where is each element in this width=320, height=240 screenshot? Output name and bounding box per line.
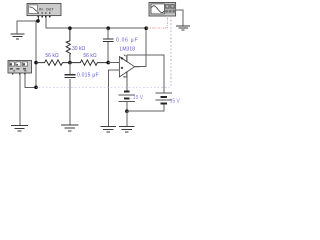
svg-text:56 kΩ: 56 kΩ [45,53,58,59]
junction dot: node C inverting input [106,61,110,65]
wire: C1 to ground G4 [69,79,71,125]
label R1 56 kOhm [45,53,58,59]
svg-text:0.06 µF: 0.06 µF [116,38,138,44]
label C2 0.06 uF [116,38,138,44]
resistor R2 56k [70,60,108,65]
wire: V- pin to battery V1 [126,78,128,91]
resistor R1 56k [36,60,70,65]
wire: Bode OUT+ down and right = output rail [46,17,146,28]
op-amp output stub [135,66,140,68]
svg-text:0.015 µF: 0.015 µF [77,73,99,79]
oscilloscope screen with trace [151,4,164,14]
wire: common rail to battery V2 bottom [127,104,164,112]
wire: node A down to FG junction [35,63,37,88]
battery V1 -15V plates [119,91,135,101]
op-amp V+ power pin [124,55,127,62]
junction dot: battery common [125,109,129,113]
capacitor C1 0.015uF [65,63,76,78]
junction dot: rail above C2 [106,26,110,30]
Bode plotter OUT label [46,8,54,12]
function generator buttons [10,68,27,71]
junction dot: top of R3 on rail [68,26,72,30]
junction dot: Bode IN node [36,19,40,23]
junction dot: node A [34,61,38,65]
ground G4 [61,125,78,131]
Bode plotter XBP1 body [27,4,61,16]
label U1 LM318 [120,47,136,53]
wire: output up to rail [140,28,147,66]
wire: FG COM terminal to ground G3 [19,74,21,125]
resistor R3 30k vertical [66,28,70,62]
wire: scope ground terminal to ground G2 [176,10,184,26]
op-amp U1 LM318 triangle [119,57,134,77]
wire: V+ pin to battery V2 [127,55,164,93]
op-amp inverting input stub from node C [108,62,119,64]
function generator XFG1 body [8,61,32,74]
capacitor C2 0.06uF [103,28,113,62]
svg-text:OUT: OUT [46,8,54,12]
op-amp V- power pin [126,72,128,79]
svg-text:30 kΩ: 30 kΩ [72,46,85,52]
wire: scope channel A red to output rail [146,16,167,28]
ground G2 [176,26,190,30]
op-amp non-inverting input wire to ground G5 [108,70,119,126]
ground G5 [101,127,117,132]
junction dot: output on rail [144,26,148,30]
label V1 15 V [133,95,144,101]
function generator terminals [12,73,26,75]
Bode plotter screen [29,5,38,13]
ground G6 [119,127,135,132]
wire: scope channel B blue to input node [36,16,171,87]
op-amp minus input mark [121,57,123,59]
label R3 30 kOhm [72,46,85,52]
label V2 15 V [170,98,181,104]
wire: ground G1 to Bode IN+ node [17,21,38,34]
wire: V1 bottom to common dot [126,102,128,112]
Bode plotter IN label [39,8,43,12]
oscilloscope XSC1 body [149,3,176,17]
svg-text:56 kΩ: 56 kΩ [83,53,96,59]
function generator displays [9,62,27,66]
svg-text:IN: IN [39,8,43,12]
svg-text:15 V: 15 V [133,95,144,101]
wire: FG plus terminal to node A column [25,74,36,87]
ground G3 [11,126,28,132]
battery V2 +15V plates [156,93,172,103]
label C1 0.015 uF [77,73,99,79]
junction dot: node B [68,61,72,65]
oscilloscope controls [165,4,175,14]
wire: Bode IN+ down to node A (main left vertical) [36,17,38,62]
wire: common dot to ground G6 [126,111,128,126]
junction dot: FG output node [34,86,38,90]
label R2 56 kOhm [83,53,96,59]
op-amp plus input mark [121,67,123,69]
svg-text:LM318: LM318 [120,47,136,53]
svg-text:15 V: 15 V [170,98,181,104]
op-amp V- pin minus mark [123,76,125,78]
Bode plotter terminals [38,12,51,17]
ground G1 [10,34,24,39]
